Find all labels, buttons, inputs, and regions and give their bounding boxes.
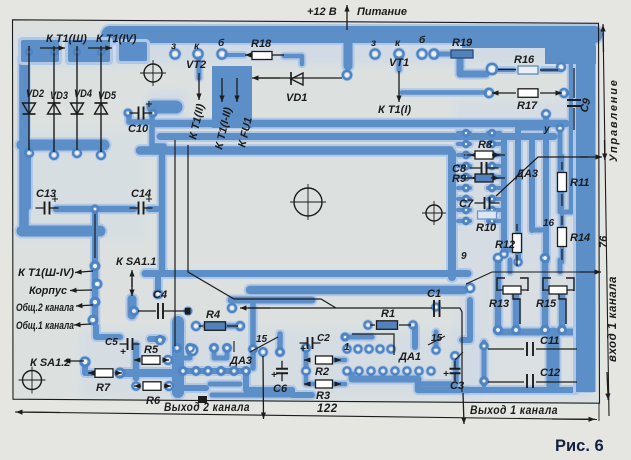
pad xyxy=(403,367,410,374)
svg-text:Рис. 6: Рис. 6 xyxy=(555,437,604,455)
C11 xyxy=(488,348,577,350)
pad xyxy=(489,152,495,158)
wire xyxy=(488,131,500,135)
pad xyxy=(489,218,495,224)
svg-text:9: 9 xyxy=(461,251,467,262)
wire xyxy=(152,114,164,146)
C3 xyxy=(454,361,456,382)
wire xyxy=(518,126,546,131)
wire xyxy=(488,208,500,212)
pad xyxy=(154,290,162,298)
pad xyxy=(230,367,238,375)
wire xyxy=(470,387,576,393)
svg-text:К Т1(ІV): К Т1(ІV) xyxy=(96,33,137,45)
wire xyxy=(420,360,456,384)
wire xyxy=(183,368,246,374)
wire xyxy=(25,150,31,207)
right dim xyxy=(603,24,609,416)
wire xyxy=(458,131,470,135)
svg-text:Общ.1 канала: Общ.1 канала xyxy=(16,320,74,332)
pad xyxy=(557,125,564,132)
wire xyxy=(250,286,464,295)
svg-text:Выход 1 канала: Выход 1 канала xyxy=(470,405,558,417)
wire xyxy=(128,299,137,315)
pad xyxy=(463,207,469,213)
wire xyxy=(197,58,202,78)
out1 arrow xyxy=(461,318,463,392)
wire xyxy=(160,133,554,140)
svg-text:С1: С1 xyxy=(427,288,441,300)
svg-text:С5: С5 xyxy=(105,337,118,348)
pad xyxy=(514,258,521,265)
wire xyxy=(558,260,563,272)
svg-text:С10: С10 xyxy=(128,123,149,135)
wire xyxy=(488,142,500,146)
wire xyxy=(488,175,500,179)
wire xyxy=(488,219,500,223)
C2 xyxy=(300,342,321,344)
wire xyxy=(85,363,92,373)
svg-text:VD3: VD3 xyxy=(50,90,68,102)
wire xyxy=(501,140,507,250)
wire xyxy=(153,120,566,128)
pad xyxy=(463,174,469,180)
wire xyxy=(246,375,292,390)
pad xyxy=(480,342,487,349)
svg-text:з: з xyxy=(371,38,376,49)
pad xyxy=(81,358,90,367)
pad xyxy=(74,49,80,55)
wire xyxy=(542,68,560,72)
wire xyxy=(172,322,184,392)
svg-text:Корпус: Корпус xyxy=(29,285,67,297)
pad xyxy=(489,196,495,202)
pad xyxy=(364,321,371,328)
pad xyxy=(394,49,403,58)
wire xyxy=(56,206,134,213)
pad xyxy=(489,163,495,169)
pad xyxy=(415,367,422,374)
pad xyxy=(489,207,495,213)
R16 xyxy=(498,69,558,72)
wire xyxy=(159,154,166,272)
wire xyxy=(177,348,190,358)
pad xyxy=(370,49,379,58)
pad xyxy=(276,348,284,356)
hole bl xyxy=(23,371,42,390)
C13 xyxy=(36,207,59,209)
wire xyxy=(306,375,316,384)
wire xyxy=(231,297,312,304)
pad xyxy=(512,326,520,334)
pad xyxy=(485,89,493,97)
svg-text:з: з xyxy=(171,41,176,52)
wire xyxy=(22,140,104,151)
R3 xyxy=(304,383,310,385)
wire xyxy=(529,140,535,230)
pad xyxy=(387,345,394,352)
svg-text:R10: R10 xyxy=(476,222,497,234)
pad xyxy=(192,367,200,375)
wire xyxy=(418,379,468,390)
wire xyxy=(559,292,566,330)
pad xyxy=(73,149,81,157)
wire xyxy=(458,208,470,212)
hole center2 xyxy=(426,205,442,221)
C7 xyxy=(475,202,500,204)
svg-text:К Т1(Ш): К Т1(Ш) xyxy=(46,33,87,45)
wire xyxy=(458,219,470,223)
pad xyxy=(187,345,197,355)
wire xyxy=(498,329,584,336)
wire xyxy=(149,206,158,212)
jumper xyxy=(198,396,207,403)
wire xyxy=(345,335,372,340)
svg-text:+: + xyxy=(443,369,449,380)
wire xyxy=(344,39,353,66)
wire xyxy=(145,270,468,277)
R14 xyxy=(558,228,567,247)
svg-text:К SA1.1: К SA1.1 xyxy=(116,256,156,268)
pad xyxy=(487,64,497,74)
pad xyxy=(228,304,236,312)
wire xyxy=(547,334,560,386)
wire xyxy=(284,56,302,64)
pad xyxy=(367,367,374,374)
wire xyxy=(560,215,565,262)
svg-text:С12: С12 xyxy=(540,367,560,379)
power arrow xyxy=(346,5,348,30)
wire xyxy=(133,345,140,378)
pad xyxy=(302,344,310,352)
pad xyxy=(150,110,157,117)
net line xyxy=(248,307,432,309)
wire xyxy=(569,62,576,210)
pad xyxy=(26,49,32,55)
pad xyxy=(236,322,244,330)
svg-text:R15: R15 xyxy=(536,298,557,310)
wire xyxy=(515,128,521,258)
board xyxy=(13,20,599,402)
pad xyxy=(223,344,231,352)
right bus xyxy=(573,29,593,393)
C14 xyxy=(130,207,153,209)
C9 xyxy=(573,68,575,130)
svg-text:С13: С13 xyxy=(36,188,56,200)
ring interior xyxy=(168,159,446,270)
svg-text:R19: R19 xyxy=(452,37,473,49)
pad xyxy=(541,326,549,334)
svg-text:К SA1.2: К SA1.2 xyxy=(30,357,70,369)
pad xyxy=(355,367,362,374)
wire xyxy=(462,300,470,340)
pad xyxy=(494,326,502,334)
pad xyxy=(432,346,439,353)
pad xyxy=(93,280,101,288)
R2 xyxy=(304,359,310,361)
svg-text:у: у xyxy=(543,124,550,135)
core traces xyxy=(22,35,594,396)
pad xyxy=(125,110,132,117)
pad xyxy=(542,110,550,118)
wire xyxy=(178,385,206,391)
wire xyxy=(250,302,256,368)
pad xyxy=(193,49,202,58)
pad xyxy=(480,377,487,384)
pad xyxy=(558,326,566,334)
pad xyxy=(342,334,349,341)
svg-text:R8: R8 xyxy=(478,139,493,151)
pad xyxy=(463,163,469,169)
svg-text:Выход 2 канала: Выход 2 канала xyxy=(164,402,250,414)
wire xyxy=(334,382,345,387)
R5 xyxy=(134,359,140,361)
pad xyxy=(164,356,172,364)
pad xyxy=(97,151,105,159)
svg-text:R3: R3 xyxy=(316,390,330,402)
wire xyxy=(96,326,120,337)
svg-text:ДА3: ДА3 xyxy=(229,355,252,367)
pad xyxy=(302,367,310,375)
svg-text:VT1: VT1 xyxy=(389,57,409,69)
pad xyxy=(379,367,386,374)
R11 xyxy=(558,173,567,192)
pad xyxy=(217,367,225,375)
svg-text:R11: R11 xyxy=(570,177,589,189)
R15 xyxy=(543,278,551,291)
R4 xyxy=(205,322,226,331)
svg-text:R14: R14 xyxy=(570,232,590,244)
wire xyxy=(458,175,470,179)
pad xyxy=(25,149,33,157)
wire xyxy=(488,186,500,190)
pad xyxy=(51,49,57,55)
pad xyxy=(91,262,99,270)
wire xyxy=(434,52,452,57)
hole top xyxy=(144,64,162,82)
pad xyxy=(427,367,434,374)
pad xyxy=(217,49,226,58)
svg-text:К Т1(Ш-ІV): К Т1(Ш-ІV) xyxy=(18,267,74,279)
wire xyxy=(558,132,563,200)
svg-text:С14: С14 xyxy=(131,188,151,200)
pad xyxy=(466,284,474,292)
wire xyxy=(155,278,161,290)
wire xyxy=(513,292,520,330)
block xyxy=(212,66,252,128)
boundary xyxy=(466,272,588,284)
pad xyxy=(132,382,139,389)
C4 xyxy=(138,310,186,312)
wire xyxy=(122,369,176,377)
pad xyxy=(463,152,469,158)
wire xyxy=(110,26,594,43)
svg-text:R6: R6 xyxy=(146,395,161,407)
pad xyxy=(50,151,58,159)
wire xyxy=(497,68,514,72)
R17 xyxy=(492,92,516,94)
svg-text:б: б xyxy=(419,34,426,46)
svg-text:вход 1 канала: вход 1 канала xyxy=(607,276,619,362)
wire xyxy=(205,324,240,329)
svg-text:С7: С7 xyxy=(459,198,474,210)
C6 xyxy=(281,361,283,382)
wire xyxy=(482,342,487,385)
wire xyxy=(458,164,470,168)
pad xyxy=(489,130,495,136)
wire xyxy=(352,375,418,379)
svg-text:R5: R5 xyxy=(144,344,159,356)
wire xyxy=(458,153,470,157)
R10 xyxy=(478,211,497,219)
svg-text:1: 1 xyxy=(344,342,350,353)
bottom dim xyxy=(15,412,597,420)
svg-text:С11: С11 xyxy=(540,335,559,347)
washes xyxy=(16,38,595,400)
R6 xyxy=(134,385,141,387)
pad xyxy=(541,254,549,262)
svg-text:Питание: Питание xyxy=(357,6,407,18)
pad xyxy=(560,89,568,97)
C10 xyxy=(130,112,153,114)
pad xyxy=(91,298,99,306)
pad xyxy=(343,367,350,374)
wire xyxy=(22,226,100,237)
C5 xyxy=(120,343,140,345)
R18 xyxy=(245,54,258,56)
hole center xyxy=(294,188,322,216)
R13 xyxy=(497,278,505,291)
pad xyxy=(343,71,351,79)
pad xyxy=(259,348,267,356)
C1 xyxy=(434,300,440,317)
wire xyxy=(543,118,549,262)
pad xyxy=(463,185,469,191)
wire xyxy=(150,336,163,342)
svg-text:К Т1(І): К Т1(І) xyxy=(378,104,411,116)
wire xyxy=(460,57,486,74)
pad xyxy=(409,321,416,328)
pad xyxy=(433,304,440,311)
pad xyxy=(489,185,495,191)
pad xyxy=(185,308,191,314)
pad xyxy=(249,345,257,353)
svg-text:122: 122 xyxy=(317,403,338,415)
C12 xyxy=(488,381,577,383)
pad xyxy=(170,49,179,58)
wire xyxy=(504,248,518,253)
svg-text:16: 16 xyxy=(543,218,555,229)
pad xyxy=(557,63,565,71)
wire xyxy=(508,260,513,272)
pad xyxy=(354,345,361,352)
wire xyxy=(560,156,565,208)
wire xyxy=(19,58,29,231)
svg-text:R1: R1 xyxy=(381,308,395,320)
wire xyxy=(488,153,500,157)
R8 xyxy=(464,154,505,156)
pad xyxy=(463,196,469,202)
wire xyxy=(304,352,309,367)
wire xyxy=(458,142,470,146)
wire xyxy=(402,90,486,95)
R1 xyxy=(377,321,398,330)
wire xyxy=(488,164,500,168)
pad xyxy=(242,367,250,375)
pad xyxy=(391,367,398,374)
pad xyxy=(500,250,507,257)
svg-text:R17: R17 xyxy=(517,100,538,112)
pad xyxy=(463,130,469,136)
svg-text:С6: С6 xyxy=(273,383,288,395)
wire xyxy=(434,332,439,347)
svg-text:+12 В: +12 В xyxy=(307,6,337,18)
wire xyxy=(214,348,227,358)
wire xyxy=(448,153,456,277)
wire xyxy=(488,197,500,201)
pad xyxy=(489,141,495,147)
svg-text:+: + xyxy=(271,370,277,381)
pad xyxy=(116,369,125,378)
pad xyxy=(179,367,187,375)
svg-text:С2: С2 xyxy=(317,333,330,344)
wire xyxy=(532,228,546,233)
wire xyxy=(92,262,99,322)
pad xyxy=(489,174,495,180)
pad xyxy=(210,344,218,352)
svg-text:76: 76 xyxy=(598,235,610,248)
svg-text:ДА3: ДА3 xyxy=(515,168,538,180)
wire xyxy=(226,53,244,57)
svg-text:б: б xyxy=(218,37,225,49)
svg-text:+: + xyxy=(300,344,306,355)
pad xyxy=(494,254,502,262)
pad xyxy=(451,352,459,360)
wire xyxy=(458,186,470,190)
pad xyxy=(365,345,372,352)
svg-text:+: + xyxy=(120,347,126,358)
wire xyxy=(560,200,572,212)
svg-text:R18: R18 xyxy=(251,38,272,50)
svg-text:R9: R9 xyxy=(452,173,467,185)
wire xyxy=(566,91,578,95)
R12 xyxy=(513,234,522,253)
svg-text:R12: R12 xyxy=(495,239,515,251)
pad xyxy=(89,316,97,324)
svg-text:С4: С4 xyxy=(153,289,167,301)
pad xyxy=(165,382,173,390)
R7 xyxy=(88,372,95,374)
pad xyxy=(186,344,194,352)
wire xyxy=(212,393,290,398)
svg-text:Общ.2 канала: Общ.2 канала xyxy=(16,302,74,314)
pad xyxy=(130,307,138,315)
pad xyxy=(156,336,164,344)
svg-text:Управление: Управление xyxy=(608,78,620,162)
svg-text:R7: R7 xyxy=(96,382,111,394)
leader xyxy=(250,337,278,352)
pad xyxy=(92,206,99,213)
svg-text:15: 15 xyxy=(256,334,268,345)
halo layer xyxy=(22,35,594,396)
R9 xyxy=(466,177,505,179)
wire xyxy=(397,56,402,70)
wire xyxy=(292,390,312,395)
svg-text:R13: R13 xyxy=(489,298,509,310)
wire xyxy=(129,114,150,122)
svg-text:VT2: VT2 xyxy=(186,59,206,71)
board frame xyxy=(13,20,600,403)
